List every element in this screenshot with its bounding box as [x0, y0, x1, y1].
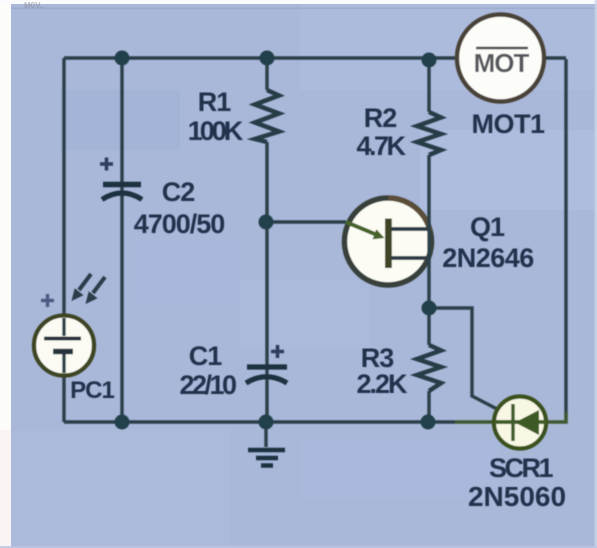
node: bottom bus / ground junction	[259, 415, 274, 430]
transistor Q1 body circle	[345, 198, 432, 285]
faint scan line near top	[8, 8, 597, 10]
svg-text:100K: 100K	[188, 116, 244, 146]
svg-text:M0V..: M0V..	[24, 1, 44, 10]
svg-text:Q1: Q1	[470, 212, 505, 242]
white page border top	[0, 0, 597, 4]
node: bottom bus / R3 junction	[421, 415, 436, 430]
svg-text:C2: C2	[162, 177, 195, 207]
svg-text:2.2K: 2.2K	[356, 369, 408, 399]
light right edge	[595, 0, 597, 548]
svg-text:SCR1: SCR1	[489, 453, 554, 483]
plus sign PC1	[41, 294, 54, 307]
resistor R1	[255, 90, 279, 142]
svg-text:MOT: MOT	[474, 48, 530, 78]
wire: top horizontal bus	[64, 56, 566, 59]
ground	[248, 450, 285, 466]
wire: rail between gate junction and R3	[427, 308, 430, 345]
wire: bottom horizontal bus	[64, 420, 455, 423]
wire: C2 branch vertical	[120, 58, 123, 422]
Q1 base-one lead	[391, 256, 428, 260]
wire: emitter wire to Q1	[266, 220, 346, 223]
Q1 base-two lead	[391, 227, 428, 231]
svg-text:MOT1: MOT1	[471, 109, 544, 139]
wire: right vertical rail	[564, 59, 567, 414]
wire: R1/C1 branch upper stub	[265, 58, 268, 90]
photocell PC1	[34, 316, 94, 376]
svg-text:PC1: PC1	[70, 377, 114, 404]
wire: R2 branch upper stub	[427, 60, 430, 112]
capacitor C1 curved plate	[246, 377, 287, 383]
capacitor C2 top plate	[103, 182, 141, 188]
node: top bus / R1 junction	[260, 51, 275, 66]
wire: bottom bus green segment to SCR	[455, 420, 494, 424]
light arrow 1 into PC1	[72, 274, 92, 301]
motor overline	[476, 47, 528, 50]
wire: R3 bottom stub	[427, 391, 430, 422]
svg-text:4700/50: 4700/50	[134, 209, 225, 239]
SCR1 internal wire	[495, 420, 546, 424]
wire: R1/C1 branch lower run	[265, 142, 268, 422]
SCR1 cathode bar	[511, 404, 515, 441]
wire: R2/Q1 vertical rail through circle edge	[427, 155, 430, 308]
plus sign C1	[271, 345, 284, 358]
svg-text:4.7K: 4.7K	[356, 131, 406, 161]
node: top bus / R2 junction	[422, 53, 437, 68]
wire: ground stub	[264, 422, 267, 447]
Q1 emitter arrow	[346, 222, 385, 239]
node: emitter junction	[259, 215, 274, 230]
node: top bus / C2 junction	[115, 51, 130, 66]
motor MOT1 circle	[457, 15, 544, 102]
wire: right rail green elbow into SCR	[547, 412, 566, 422]
Q1 base bar	[385, 219, 392, 269]
white page border left	[0, 0, 11, 548]
SCR1 triangle	[515, 410, 539, 435]
svg-text:R1: R1	[198, 87, 231, 117]
capacitor C2 curved plate	[102, 193, 142, 200]
svg-text:C1: C1	[189, 341, 222, 371]
SCR1 circle	[494, 397, 546, 449]
node: gate junction	[422, 301, 437, 316]
resistor R3	[417, 345, 441, 391]
node: bottom bus / C2 junction	[115, 415, 130, 430]
plus sign C2	[100, 158, 113, 171]
svg-text:2N5060: 2N5060	[468, 481, 566, 512]
svg-text:R2: R2	[364, 103, 397, 133]
wire: gate wire from junction to SCR	[429, 308, 497, 409]
resistor R2	[417, 112, 441, 155]
light arrow 2 into PC1	[86, 277, 106, 304]
capacitor C1 top plate	[247, 364, 287, 369]
wire: left vertical rail	[62, 58, 65, 422]
svg-text:22/10: 22/10	[179, 370, 236, 400]
light bottom edge	[0, 546, 597, 548]
svg-text:2N2646: 2N2646	[442, 243, 534, 273]
